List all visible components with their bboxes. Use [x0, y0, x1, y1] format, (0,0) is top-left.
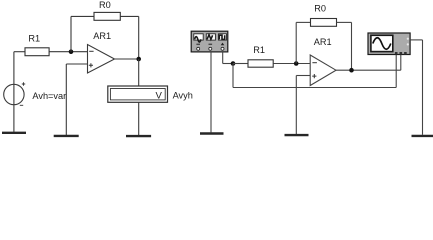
- oscilloscope bottom terminal nubs: [395, 52, 398, 55]
- op-amp minus glyph (right): [312, 62, 317, 64]
- wire R0 branch left vertical (right circuit): [295, 22, 297, 63]
- resistor R1: [25, 48, 49, 56]
- source minus mark: [20, 104, 23, 106]
- voltage source V1 circle: [4, 84, 24, 104]
- wire R0 branch top right horizontal (right circuit): [337, 21, 352, 23]
- ground GC: [412, 135, 433, 137]
- ground G1: [2, 132, 26, 134]
- voltmeter PV1 outer box: [108, 86, 168, 102]
- resistor R0 (right): [311, 19, 337, 27]
- wire op-amp output to scope channel B corner: [336, 69, 401, 71]
- wire channel A long horizontal to input node: [233, 87, 396, 89]
- function generator window 3: [219, 34, 227, 40]
- ground G2: [54, 135, 79, 137]
- wire left rail from R1 down through source V1 to ground: [13, 52, 15, 132]
- wire R0 branch left vertical: [70, 16, 72, 51]
- function generator G1 body: [191, 31, 228, 52]
- function generator small marks below windows: [196, 43, 200, 45]
- oscilloscope right terminal dots: [407, 38, 409, 40]
- svg-text:V: V: [156, 90, 163, 101]
- wire R0 branch right vertical down to output node: [138, 16, 140, 59]
- op-amp AR1 (right): [310, 55, 336, 86]
- function generator terminal 1: [197, 47, 200, 50]
- wire voltmeter down to ground: [138, 102, 140, 135]
- wire R0 branch top right horizontal: [120, 15, 138, 17]
- node C junction dot (input): [231, 61, 236, 66]
- wire R1 row (minus input row): [14, 51, 25, 53]
- wire R0 branch top left horizontal (right circuit): [296, 21, 310, 23]
- wire FG common terminal down to ground: [210, 52, 212, 132]
- source plus mark: [22, 82, 25, 85]
- svg-text:R1: R1: [253, 45, 265, 55]
- svg-text:Avyh: Avyh: [173, 90, 193, 100]
- oscilloscope screen frame: [371, 35, 393, 51]
- wire FG to input node: [223, 63, 233, 65]
- wire scope ground vertical: [422, 40, 424, 135]
- wire input node to R1: [233, 63, 248, 65]
- wire plus input horizontal (right): [296, 75, 310, 77]
- svg-text:AR1: AR1: [314, 37, 332, 47]
- op-amp plus glyph (right): [312, 74, 316, 78]
- wire scope ground from right side: [410, 39, 422, 41]
- wire op-amp output: [115, 58, 139, 60]
- wire plus input horizontal: [66, 63, 87, 65]
- wire channel B vertical up to scope: [400, 55, 402, 71]
- wire FG right terminal down: [222, 52, 224, 64]
- oscilloscope body: [368, 33, 410, 55]
- node E junction dot (output right): [349, 68, 354, 73]
- node D junction dot (minus input): [294, 61, 299, 66]
- ground GA: [200, 132, 224, 134]
- svg-text:R0: R0: [314, 4, 326, 14]
- ground GB: [285, 134, 309, 136]
- wire from R1 to op-amp minus input: [49, 51, 87, 53]
- svg-text:R1: R1: [28, 33, 40, 43]
- svg-text:Avh=var: Avh=var: [32, 91, 66, 101]
- svg-text:R0: R0: [99, 0, 111, 10]
- wire plus input vertical down to ground: [65, 64, 67, 135]
- wire plus input vertical down to ground (right): [295, 76, 297, 135]
- function generator terminal 3: [221, 47, 224, 50]
- function generator window 2: [206, 34, 215, 40]
- wire output node down to voltmeter: [138, 59, 140, 86]
- oscilloscope sine wave: [373, 38, 391, 50]
- op-amp minus glyph: [89, 50, 93, 52]
- op-amp plus glyph: [89, 63, 93, 67]
- wire R1 to minus node: [273, 63, 310, 65]
- ground G3: [126, 135, 151, 137]
- wire R0 branch right vertical down to output node (right circuit): [351, 22, 353, 70]
- function generator terminal 2: [209, 47, 212, 50]
- node B junction dot (output): [136, 57, 141, 62]
- resistor R0: [94, 12, 120, 20]
- wire R0 branch top left horizontal: [71, 15, 94, 17]
- wire channel A vertical from scope down: [395, 55, 397, 88]
- voltmeter PV1 inner box: [110, 89, 165, 100]
- function generator window 1: [194, 34, 203, 40]
- op-amp AR1: [88, 45, 115, 74]
- resistor R1 (right): [248, 60, 273, 67]
- wire input node down to channel A horizontal: [232, 64, 234, 88]
- node A junction dot: [69, 49, 74, 54]
- svg-text:AR1: AR1: [93, 31, 111, 41]
